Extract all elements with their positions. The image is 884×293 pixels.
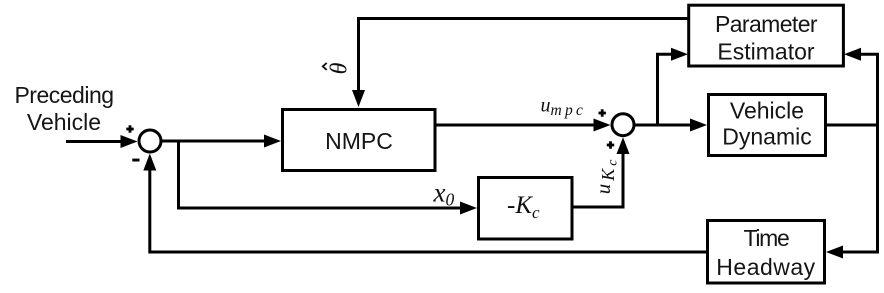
svg-text:Vehicle: Vehicle (27, 109, 101, 135)
block -Kc (479, 178, 573, 240)
wire input to summing junction S1 (66, 135, 138, 148)
wire S1 to NMPC (161, 135, 281, 148)
svg-text:Dynamic: Dynamic (722, 124, 811, 150)
svg-text:Vehicle: Vehicle (730, 98, 804, 124)
wire S2 to Vehicle Dynamic (634, 119, 707, 132)
svg-text:θ: θ (327, 62, 353, 74)
wire right bus vertical (876, 54, 879, 252)
block Parameter Estimator (689, 5, 844, 66)
wire Time Headway feedback to S1 (143, 154, 706, 253)
label u_Kc (rotated) (591, 157, 621, 195)
svg-text:Time: Time (743, 225, 789, 251)
svg-text:Headway: Headway (716, 254, 815, 280)
summing junction S2 (612, 114, 634, 136)
block Vehicle Dynamic (709, 95, 826, 156)
svg-text:NMPC: NMPC (325, 128, 393, 154)
wire right bus to Time Headway (826, 246, 879, 259)
svg-text:Estimator: Estimator (717, 39, 814, 65)
minus sign at S1 lower input (132, 159, 139, 162)
svg-text:Parameter: Parameter (715, 11, 818, 37)
wire theta-hat feedback: Parameter Estimator to NMPC (352, 19, 688, 108)
label x0 (433, 178, 455, 210)
svg-text:Preceding: Preceding (14, 82, 113, 108)
wire NMPC to summing junction S2 (436, 119, 611, 132)
wire branch node to x0 line (179, 141, 478, 215)
plus sign at S2 lower input (607, 141, 614, 148)
plus sign at S1 input (126, 125, 133, 132)
wire right bus to Parameter Estimator (844, 48, 879, 61)
summing junction S1 (139, 130, 161, 152)
label theta-hat (rotated) (323, 62, 353, 74)
label u_mpc (541, 95, 587, 120)
block NMPC (283, 110, 436, 171)
plus sign at S2 left input (599, 109, 606, 116)
label Preceding Vehicle (14, 82, 113, 135)
wire -Kc output up to S2 (574, 137, 630, 207)
block Time Headway (708, 221, 825, 284)
wire Vehicle Dynamic output to right bus (827, 124, 878, 127)
wire branch from S2 output up to Parameter Estimator (658, 48, 689, 125)
